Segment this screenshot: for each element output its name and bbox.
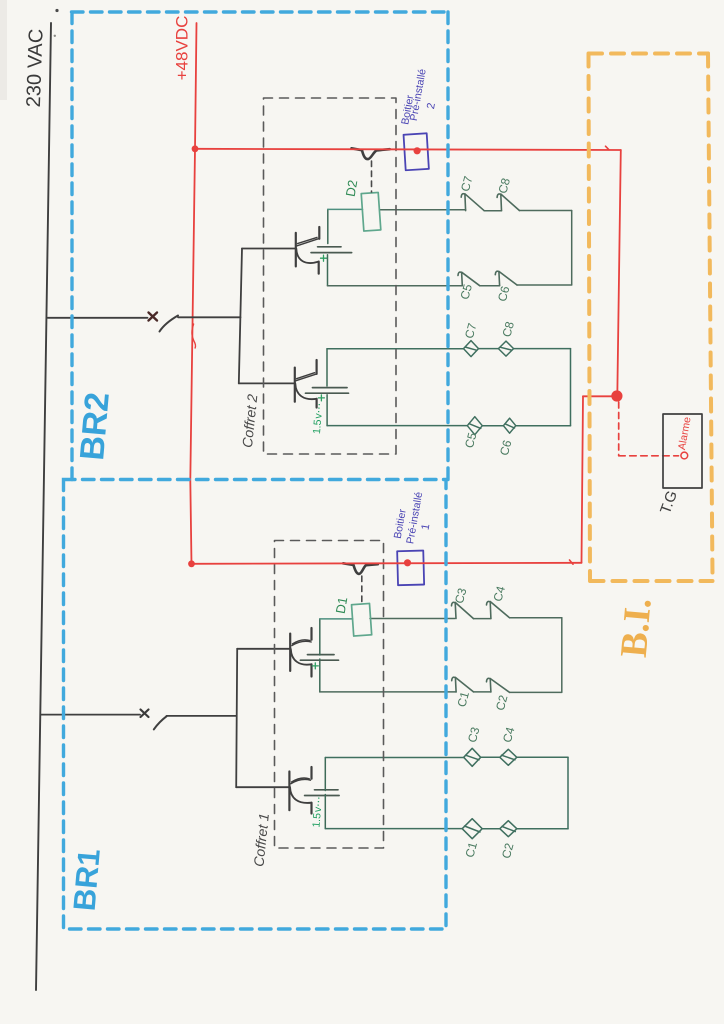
transistor Q2b collector plate (316, 360, 318, 374)
svg-text:BR1: BR1 (67, 847, 107, 912)
wire C3-C4 (474, 618, 491, 620)
node red junction dot BR1 (188, 560, 195, 567)
wire BR1 diamond loop right vertical (567, 757, 569, 828)
transistor Q2b emitter arc (295, 383, 316, 399)
battery B2a plus mark (321, 255, 327, 261)
svg-text:B.I.: B.I. (613, 596, 660, 659)
wire battery B2a top branch (327, 209, 329, 243)
wire red riser to junction (583, 395, 612, 397)
enclosure Coffret 1 dashed (275, 541, 384, 849)
battery B1b plate long (305, 795, 340, 797)
wire battery B1a top branch (319, 619, 321, 655)
wire BR1 diamond loop top (325, 756, 568, 758)
zone BR1 dashed box (64, 480, 447, 930)
transistor Q1a base bar (289, 634, 291, 671)
wire red BR1 riser vertical (582, 396, 584, 563)
wire 230VAC bus (36, 23, 51, 990)
wire relay D1 left (320, 618, 353, 620)
relay coil D1 (352, 603, 372, 636)
battery B1a plate long (300, 659, 338, 661)
transistor Q1a collector plate (310, 628, 312, 640)
battery B2b plate long (306, 392, 349, 394)
wire relay D2 right to breakers (380, 209, 466, 211)
wire relay D2 left (328, 208, 363, 210)
diode C4 diamond (500, 749, 517, 765)
fuse squiggle on +48 line BR2 (352, 148, 390, 159)
battery B1a plate short (308, 654, 335, 656)
diode C7 diamond (464, 341, 479, 357)
breaker C7 (461, 194, 484, 211)
svg-text:D2: D2 (343, 179, 361, 198)
transistor Q2b collector lead (296, 373, 317, 381)
wire diamond loop top (327, 348, 571, 350)
wire red scribble near switch (192, 324, 196, 348)
scanner edge shading (0, 0, 7, 100)
wire battery B1b bottom branch (324, 795, 326, 829)
wire red tick near BI top (606, 146, 610, 150)
wire battery B2b top branch (326, 349, 328, 386)
transistor Q2a base bar (295, 233, 297, 267)
wire to Q2a base (242, 248, 296, 250)
svg-text:D1: D1 (333, 596, 351, 615)
switch S2 blade (160, 316, 179, 332)
svg-text:BR2: BR2 (73, 391, 117, 462)
alarm contact circle (681, 452, 688, 459)
wire red alarm dashed horizontal (619, 455, 679, 457)
breaker C4 (487, 601, 510, 618)
battery B1b plate short (315, 789, 339, 791)
battery B2b plus mark (318, 395, 324, 401)
switch S1 X mark (141, 710, 149, 718)
transistor Q2b emitter plate (316, 399, 318, 408)
relay box Alarme outline (663, 414, 702, 488)
module Boitier Pre-installe 1 box (397, 551, 424, 586)
wire relay D1 control dashes (361, 576, 363, 603)
breaker C6 (495, 271, 517, 285)
transistor Q2a emitter arc (296, 249, 318, 264)
battery B2a plate short (318, 246, 341, 248)
power +48VDC red bus (190, 23, 196, 564)
zone BR2 dashed box (72, 12, 449, 480)
node bus top tick (55, 9, 58, 12)
switch S1 blade (154, 716, 167, 729)
wire BR1 split vertical (236, 649, 237, 787)
breaker C8 (497, 194, 519, 211)
wire BR2 feed from bus (48, 317, 148, 319)
wire red +48 BR2 horizontal (195, 149, 621, 150)
transistor Q2b base bar (294, 368, 296, 402)
wire to Q1a base (237, 648, 290, 650)
wire breaker loop right vertical (571, 211, 573, 285)
transistor Q1b collector plate (310, 767, 312, 779)
enclosure Coffret 2 dashed (264, 98, 397, 454)
diode C1 diamond (462, 819, 482, 839)
diode C3 diamond (464, 748, 481, 766)
node big red junction dot (611, 390, 622, 401)
relay coil D2 (361, 192, 381, 231)
transistor Q1b emitter arc (290, 787, 312, 803)
svg-text:+48VDC: +48VDC (172, 16, 191, 81)
wire C7-C8 (484, 210, 501, 212)
breaker C1 (452, 677, 474, 692)
diode C6 diamond (503, 418, 515, 433)
diode C2 diamond (500, 821, 517, 837)
breaker C2 (487, 678, 510, 692)
wire red tick near BR1 corner (570, 560, 574, 564)
wire battery B2b bottom branch (326, 395, 328, 426)
wire switch to split node (178, 316, 241, 318)
wire relay D2 control dashes (371, 161, 373, 192)
transistor Q1a collector lead (292, 640, 311, 646)
fuse squiggle on +48 line BR1 (343, 563, 378, 574)
svg-text:230 VAC: 230 VAC (23, 28, 48, 107)
transistor Q1a emitter arc (291, 649, 312, 665)
wire BR1 breaker loop right vertical (561, 618, 563, 692)
diode C5 diamond (467, 417, 482, 435)
breaker C3 (452, 602, 474, 618)
transistor Q2a collector plate (318, 227, 320, 239)
transistor Q1a emitter plate (310, 664, 312, 676)
battery B2a plate long (311, 252, 352, 254)
wire C8 to corner (519, 210, 571, 212)
wire diamond loop right vertical (570, 349, 572, 426)
transistor Q1b base bar (288, 772, 290, 811)
node red junction dot BR2 (192, 145, 199, 152)
wire BR2 split vertical (239, 249, 242, 384)
wire red BI right vertical (617, 150, 621, 396)
wire diamond loop bottom (327, 425, 570, 427)
wire BR1 breaker loop bottom (320, 691, 562, 694)
module Boitier Pre-installe 2 box (404, 133, 429, 170)
breaker C5 (458, 272, 480, 286)
wire battery B1a bottom branch (319, 659, 321, 692)
node pilot red dot BR2 (414, 147, 421, 154)
transistor Q2a emitter plate (318, 262, 320, 274)
zone B.I. dashed box (589, 52, 708, 56)
wire C4 to corner (510, 617, 562, 619)
wire switch to split node BR1 (167, 715, 237, 717)
wire battery B2a bottom branch (327, 255, 329, 286)
wire to Q1b base (236, 786, 289, 788)
wire relay D1 right to breakers (370, 618, 455, 620)
wire breaker loop bottom (328, 284, 572, 287)
wire battery B1b top branch (324, 758, 326, 791)
wire red alarm dashed vertical (618, 402, 620, 456)
wire red +48 BR1 horizontal (192, 563, 582, 564)
battery B2b plate short (313, 387, 348, 389)
wire to Q2b base (239, 382, 295, 384)
battery B1a plus mark (312, 663, 318, 669)
node pilot red dot BR1 (404, 559, 411, 566)
transistor Q2a collector lead (297, 237, 319, 245)
transistor Q1b collector lead (291, 778, 311, 784)
diode C8 diamond (498, 341, 513, 356)
wire BR1 diamond loop bottom (325, 828, 568, 830)
wire BR1 feed from bus (41, 714, 140, 716)
transistor Q1b emitter plate (310, 803, 312, 814)
switch S2 X mark (149, 313, 158, 321)
